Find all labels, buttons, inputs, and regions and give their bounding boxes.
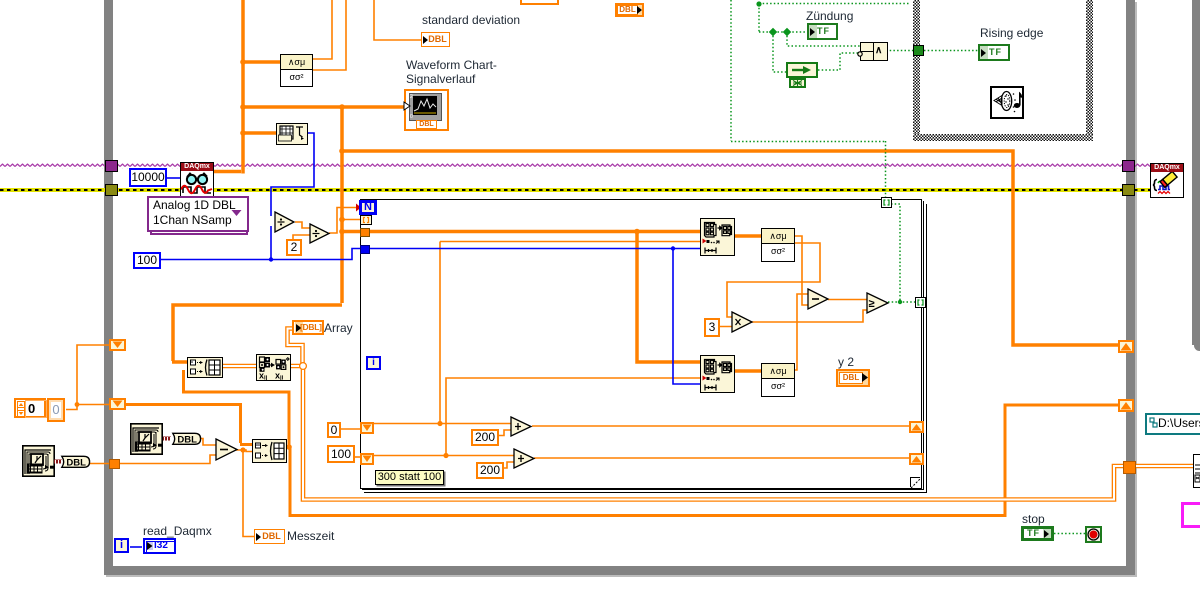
wire build array2 top input: [240, 443, 253, 446]
waveform chart terminal icon: [404, 89, 449, 131]
tunnel [] green for-loop right: [915, 297, 926, 308]
wire subset1 to stats1: [732, 234, 761, 238]
wire std deviation indicator from top: [374, 0, 422, 40]
for loop frame outer stack 1: [362, 201, 924, 490]
wire 100 branch to divide1: [270, 226, 272, 260]
wire divide1 out to divide2: [295, 222, 310, 228]
wire bool frame bottom: [731, 141, 885, 143]
wire subset2 to stats2: [732, 369, 761, 373]
divide node 1: [274, 211, 296, 233]
wire stats2 mean to subtract: [793, 294, 809, 370]
wire build array1 input: [172, 360, 188, 364]
shift register for-loop right 2: [909, 453, 924, 465]
label 300 statt 100: [375, 470, 444, 485]
wire init control to SRs: [66, 345, 110, 410]
indicator TF Rising edge: [978, 44, 1010, 61]
constant 100 (left): [133, 252, 161, 269]
timestamp wire 1: [54, 459, 62, 465]
wire subtract to gte: [828, 299, 869, 301]
DAQmx clear VI icon: [1150, 163, 1184, 198]
coercion red arrows: [276, 204, 361, 231]
label Array: [324, 321, 353, 335]
wire to build waveform icon: [243, 131, 276, 135]
pink rectangle partial: [1181, 502, 1200, 528]
wire divide2 to N: [329, 208, 357, 234]
DAQmx read VI icon: [180, 162, 214, 197]
beep VI icon: [990, 86, 1024, 119]
wire SR1 row to adder1: [374, 423, 511, 425]
AND node: [860, 42, 888, 61]
label Zuendung: [806, 9, 853, 23]
case structure border left: [913, 0, 920, 141]
case structure border bottom: [913, 134, 1093, 141]
wire stats1 mean to subtract: [793, 236, 809, 305]
case structure border right: [1086, 0, 1093, 141]
wire subtract-bl out to build array2: [236, 450, 253, 452]
multiply node: [731, 311, 754, 333]
enum constant Analog 1D DBL: [150, 199, 248, 235]
wire DAQmx out to main vertical: [211, 170, 241, 174]
iteration terminal i (while): [114, 538, 129, 553]
build array VI 1 (upper): [187, 357, 223, 378]
constant 10000: [129, 168, 167, 187]
convert DBL bubble 2: [171, 432, 202, 446]
indicator DBL array top (cut): [615, 3, 644, 17]
label Messzeit: [287, 529, 334, 543]
while loop W1 border left: [104, 0, 113, 575]
wire SR2-left to build array2: [126, 405, 241, 444]
wire bool top horizontal: [759, 3, 910, 5]
gte node: [866, 292, 890, 315]
wire build waveform out to divide1: [271, 133, 314, 216]
for loop frame main: [360, 199, 922, 489]
tunnel orange square for loop left: [360, 228, 370, 237]
shift register while right 1: [1118, 340, 1134, 353]
wire adder2 to SR2-right: [534, 457, 909, 459]
wire long top to right x1013: [342, 151, 1121, 345]
wire tunnel to Rising edge TF: [924, 50, 979, 52]
wire to stats1: [243, 60, 280, 64]
wire N samples inside loop: [370, 248, 700, 250]
while loop W1 border right: [1126, 0, 1135, 575]
wire tunnel to array subset1: [344, 230, 700, 234]
wire AND out to case tunnel: [886, 50, 914, 52]
tunnel blue square for loop left: [360, 245, 370, 254]
tunnel error left border: [105, 184, 118, 196]
tunnel green case selector: [913, 45, 924, 56]
wire gte out to tunnel: [888, 301, 916, 303]
indicator DBL Messzeit: [254, 529, 285, 544]
wire left elbow to build array1: [173, 305, 342, 361]
wire branch vertical x342: [340, 107, 344, 303]
subtract node (in loop): [807, 288, 830, 311]
wire bool frame left vertical: [730, 0, 732, 141]
wire stop TF to stop terminal: [1054, 533, 1085, 535]
wire bool to Zuendung TF: [759, 31, 807, 33]
wire 0 const to SR1: [339, 428, 361, 430]
label read_Daqmx: [143, 524, 212, 538]
wire clock2 to subtract-bl: [197, 439, 217, 446]
wire bool to AND top: [787, 32, 861, 46]
stats VI 1 (in loop): [761, 228, 795, 262]
svg-text:xji: xji: [275, 371, 284, 381]
for loop dog-ear corner: [910, 477, 920, 487]
stats VI top-left: [280, 54, 313, 87]
constant 3: [704, 318, 720, 337]
wire [] tunnel feed: [343, 219, 360, 221]
constant 0 grey: [47, 398, 65, 422]
tunnel error right border: [1122, 184, 1135, 196]
wire 200b to adder2: [500, 462, 514, 468]
subtract node bottom-left: [215, 438, 239, 462]
write file VI icon partial: [1193, 454, 1200, 488]
wire i to I32: [130, 546, 142, 548]
indicator I32 read_Daqmx: [143, 538, 176, 554]
svg-text:DBL: DBL: [66, 457, 86, 468]
wire index1 vertical x440: [439, 242, 441, 424]
clock VI 2: [130, 423, 163, 455]
wire bool junction down: [758, 4, 760, 32]
constant 200 a: [471, 429, 499, 446]
tunnel purple right border: [1122, 160, 1135, 172]
wire 2D array: xij out, down, long bottom, up right, to file icon: [288, 329, 1195, 500]
array subset VI 1: [700, 218, 735, 256]
constant 200 b: [476, 462, 504, 479]
wire bool down into for loop: [885, 141, 887, 197]
junction dots orange: [240, 59, 246, 65]
tunnel orange square left border y464: [109, 459, 120, 469]
svg-text:xij: xij: [259, 371, 268, 381]
wire 2 const to divide2: [293, 235, 310, 239]
wire purple task wire across: [0, 164, 1150, 169]
constant 2: [286, 239, 302, 256]
label y 2: [838, 355, 854, 369]
tunnel [] for loop left: [360, 215, 372, 225]
tunnel orange square right border y466: [1123, 461, 1136, 474]
while loop W2 (right, partial) border: [1192, 0, 1200, 345]
wire stats1 out up2: [311, 0, 346, 70]
junction marks green: [756, 1, 761, 6]
label stop: [1022, 512, 1045, 526]
control 0 with spinner: [14, 398, 46, 418]
tunnel purple left border: [105, 160, 118, 172]
label standard deviation: [422, 13, 520, 27]
label Waveform Chart: [406, 58, 497, 86]
divide node 2: [309, 223, 331, 244]
constant 0 (for loop): [327, 422, 341, 438]
wire stats1 sigma to multiply: [727, 243, 820, 317]
shift register while right 2: [1118, 399, 1134, 412]
wire index2 vertical x446: [446, 378, 700, 455]
increment node a: [510, 416, 533, 437]
wire feedback out to AND lower: [818, 53, 858, 70]
convert DBL bubble 1: [60, 455, 91, 469]
wire 10000 to DAQmx: [167, 177, 181, 179]
shift register left W1 top: [109, 339, 126, 351]
wire multiply to gte: [752, 310, 869, 322]
wire 200a to adder1: [495, 430, 511, 436]
wire right vertical to SR2-right tunnel: [1005, 405, 1121, 517]
indicator y2 DBL: [836, 369, 870, 387]
wire [] tunnel down inside for loop: [891, 204, 900, 302]
wire main signal vertical x243: [241, 0, 245, 174]
while loop W1 border shadow: [106, 575, 1137, 577]
feedback node: [786, 62, 818, 78]
wire 100 const to SR2: [352, 456, 361, 458]
shift register for-loop right 1: [909, 421, 924, 433]
build waveform icon: [276, 123, 308, 145]
loop condition stop terminal: [1085, 526, 1102, 543]
wire SR2 row to adder2: [374, 455, 514, 457]
indicator TF Zuendung: [807, 23, 838, 40]
junction hollow circle on 2D wire: [300, 363, 307, 370]
wire branch down x637 to subset2: [637, 232, 700, 363]
stats VI 2 (in loop): [761, 363, 795, 397]
indicator DBL standard deviation: [421, 32, 450, 47]
wire 3 const to multiply: [716, 326, 733, 328]
svg-text:≥: ≥: [869, 298, 875, 310]
clock VI 1 (get date/time): [22, 445, 55, 477]
wire stats1 out up1: [311, 0, 332, 59]
svg-text:DBL: DBL: [177, 434, 197, 445]
increment node b: [513, 448, 536, 469]
label Rising edge: [980, 26, 1043, 40]
shift register for-loop left 1: [360, 422, 374, 434]
wire clock1 to subtract-bl: [89, 455, 217, 464]
wire to Messzeit: [243, 450, 255, 537]
while loop W1 border bottom: [104, 566, 1135, 575]
partial box top: [520, 0, 559, 5]
for loop N terminal: [359, 200, 377, 215]
wire error wire (yellow/black) across: [0, 188, 1152, 192]
wire to waveform chart: [243, 105, 405, 109]
path constant D:\Users: [1145, 413, 1200, 435]
junction dots blue: [269, 257, 273, 261]
timestamp wire 2: [163, 436, 171, 442]
array subset VI 2: [700, 355, 735, 393]
shift register for-loop left 2: [360, 453, 374, 465]
wire adder1 to SR1-right: [532, 425, 909, 427]
wire 2D array: build array1 to xij: [220, 364, 257, 369]
wire build array2 out down long bottom: [290, 447, 1005, 516]
wire 100 to tunnel: [159, 249, 361, 260]
shift register left W1 bottom: [109, 398, 126, 410]
for loop frame outer stack 2: [364, 204, 927, 493]
wire branch to subset2: [673, 249, 700, 385]
wire build array2 out up to build array1: [184, 370, 290, 447]
indicator Array: [292, 320, 324, 335]
constant 100 (for loop): [327, 445, 355, 463]
tunnel [] green for-loop top: [881, 197, 892, 208]
wire bool to feedback node: [773, 32, 787, 72]
control TF stop: [1021, 526, 1054, 541]
build array VI 2 (bottom): [252, 439, 287, 463]
transpose xij VI: [256, 354, 291, 381]
iteration terminal i (for): [366, 356, 381, 370]
wire index1 to subset1: [440, 241, 700, 243]
